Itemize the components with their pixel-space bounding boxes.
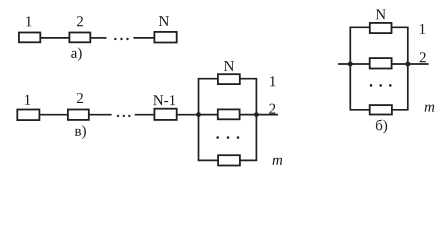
- wire: [177, 114, 199, 116]
- resistor middle row (figure b): [370, 58, 392, 68]
- wire: [91, 37, 107, 39]
- top wire (figure b): [350, 26, 409, 28]
- resistor middle row (figure v): [218, 109, 240, 119]
- right rail (figure b): [407, 27, 409, 110]
- label 1 (figure b right): [420, 24, 425, 34]
- junction left (figure b): [348, 62, 353, 67]
- bottom wire (figure v parallel block): [198, 159, 258, 161]
- wire: [40, 114, 68, 116]
- wire: [133, 37, 154, 39]
- label b) caption: [376, 119, 387, 133]
- right rail (figure v parallel block): [255, 79, 257, 161]
- ellipsis dots (figure v): [117, 115, 131, 117]
- label 1 (figure a): [26, 16, 31, 26]
- resistor top row (figure b): [370, 23, 392, 33]
- wire: [41, 37, 69, 39]
- resistor bottom row (figure b): [370, 105, 392, 114]
- vertical ellipsis dots (figure v block): [216, 136, 239, 139]
- label m (figure b right): [425, 105, 435, 112]
- label N (figure a): [159, 16, 169, 26]
- label v) caption: [75, 125, 86, 139]
- left rail (figure b): [349, 27, 351, 110]
- main wire (figure b): [338, 63, 429, 65]
- left rail (figure v parallel block): [198, 79, 200, 161]
- top wire (figure v parallel block): [198, 78, 258, 80]
- label 2 (figure a): [77, 16, 83, 26]
- label a) caption: [71, 47, 81, 61]
- resistor 2 (figure a): [69, 33, 90, 43]
- resistor 1 (figure a): [19, 33, 40, 43]
- label N (figure b): [376, 9, 386, 19]
- junction left (figure v): [196, 112, 201, 117]
- label 2 (figure b right): [420, 52, 426, 62]
- vertical ellipsis dots (figure b): [370, 84, 392, 87]
- resistor N (figure a): [154, 32, 176, 43]
- wire: [135, 114, 154, 116]
- resistor 2 (figure v): [68, 110, 89, 120]
- resistor N-1 (figure v): [154, 109, 176, 120]
- label 2 (figure v chain): [77, 93, 83, 103]
- label N (figure v parallel top): [224, 61, 234, 71]
- main wire through middle row: [199, 114, 279, 116]
- resistor 1 (figure v): [17, 110, 39, 121]
- label m (figure v right): [273, 158, 283, 165]
- label 1 (figure v chain): [25, 95, 30, 105]
- junction right (figure v): [254, 112, 259, 117]
- wire: [89, 114, 111, 116]
- resistor N (figure v parallel top row): [218, 74, 240, 84]
- label 1 (figure v right): [270, 76, 275, 86]
- label 2 (figure v right): [269, 104, 275, 114]
- bottom wire (figure b): [350, 109, 409, 111]
- label N-1 (figure v): [153, 95, 175, 105]
- junction right (figure b): [405, 62, 410, 67]
- resistor bottom row (figure v): [218, 155, 240, 165]
- ellipsis dots (figure a): [114, 38, 129, 40]
